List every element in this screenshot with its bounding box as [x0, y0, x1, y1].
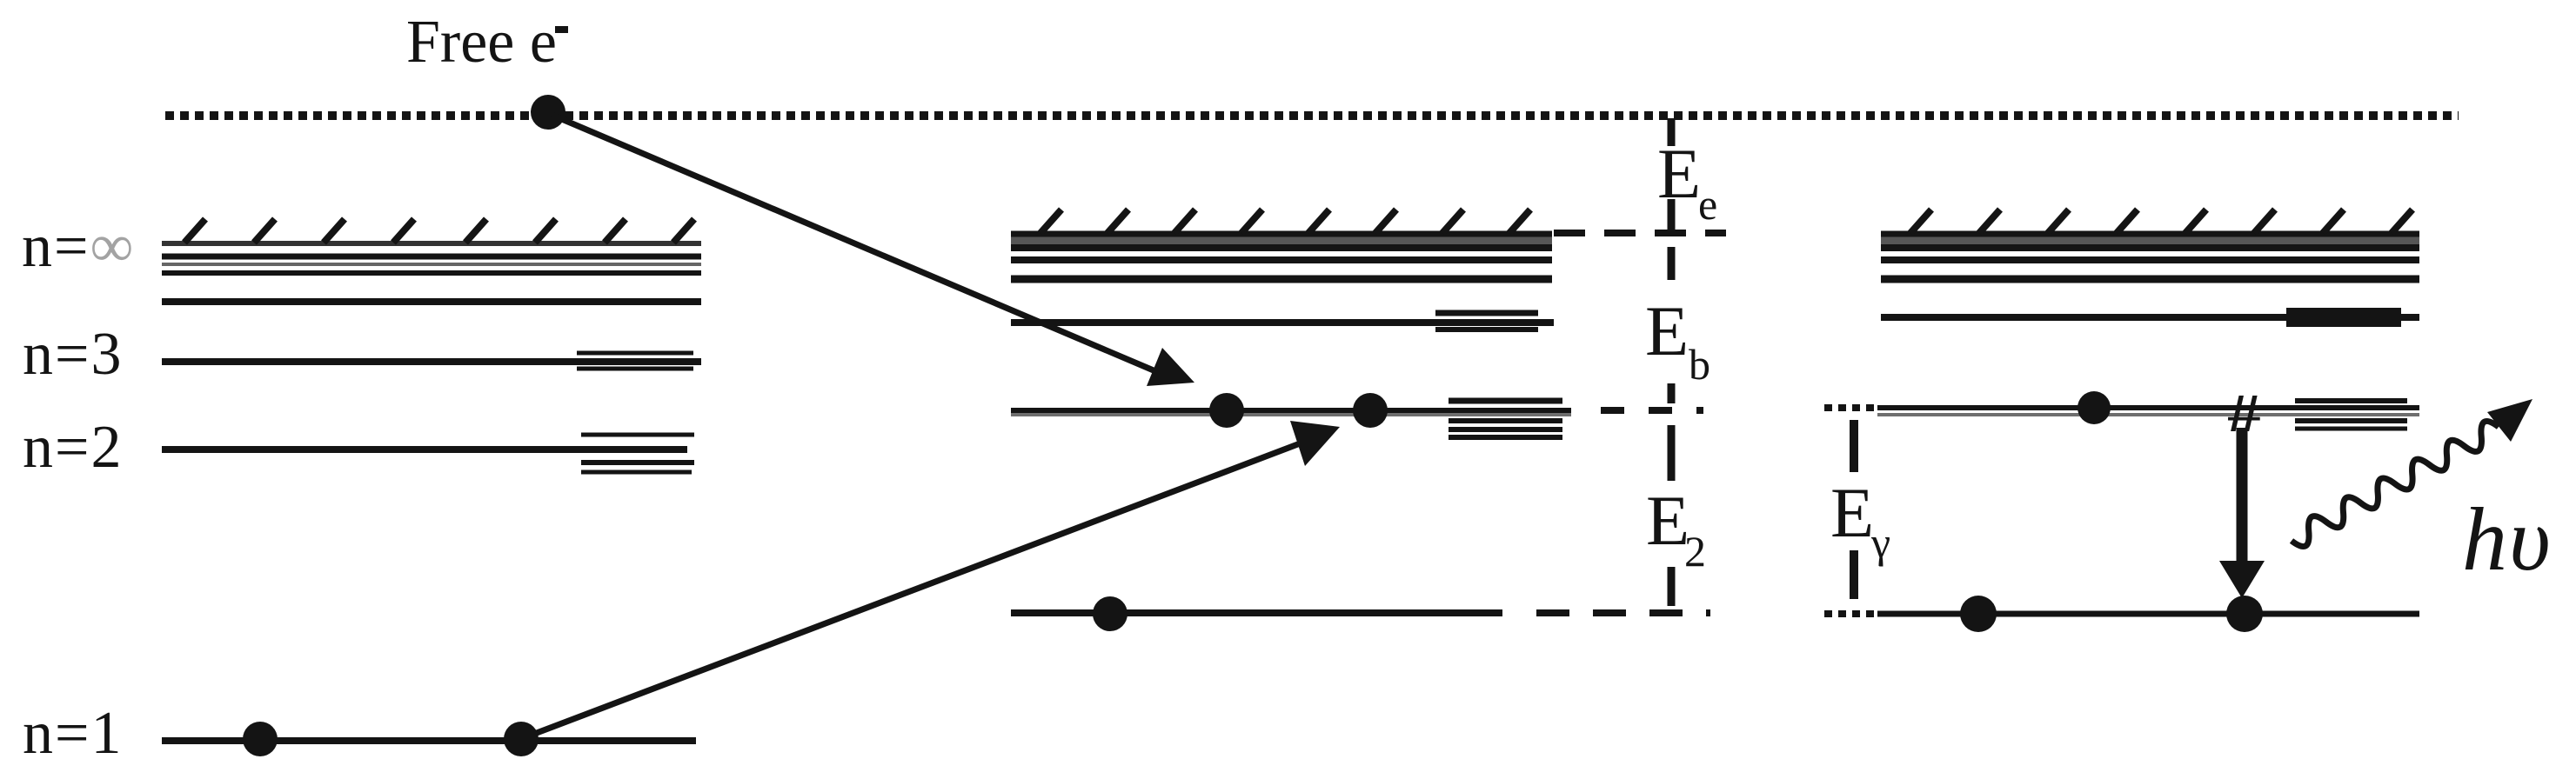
energy scale vertical dashed line segment 1 [1668, 118, 1676, 146]
middle fine structure bar 2 [1449, 418, 1562, 423]
svg-text:e: e [1698, 180, 1717, 229]
middle fine structure bar 4 [1449, 435, 1562, 440]
left Rydberg level line [162, 254, 701, 260]
svg-text:n=2: n=2 [23, 414, 123, 481]
svg-text:hυ: hυ [2462, 489, 2553, 589]
middle ground electron dot [1093, 596, 1127, 631]
middle continuum hatched line [1011, 210, 1552, 234]
E gamma vertical dotted segment upper [1850, 420, 1858, 472]
svg-text:E: E [1645, 291, 1689, 370]
middle ground level line [1011, 609, 1502, 616]
left n=1 level line [162, 737, 696, 744]
left continuum hatched line [162, 219, 701, 243]
radiative decay arrow [2219, 428, 2265, 598]
left n=2 fine structure lower [581, 460, 694, 465]
svg-text:γ: γ [1870, 518, 1890, 567]
free electron dot [531, 95, 565, 130]
left n=2 fine structure lower2 [581, 470, 692, 475]
svg-text:2: 2 [1684, 527, 1706, 576]
middle continuum gray line [1011, 237, 1552, 245]
middle n=3 fine structure lower [1435, 327, 1538, 332]
excitation arrow wire from n=1 to middle level [523, 421, 1340, 738]
middle Rydberg line 2 [1011, 276, 1552, 283]
svg-text:n=1: n=1 [23, 700, 123, 767]
right continuum hatched line [1881, 210, 2419, 234]
right ground electron dot 1 [1960, 596, 1997, 632]
left n=1 electron dot 2 [504, 722, 539, 756]
right ground electron dot 2 [2226, 596, 2263, 632]
capture arrow wire from free electron to middle doubly-excited level [552, 115, 1194, 386]
middle continuum line [1011, 244, 1552, 251]
left n=2 fine structure upper [581, 433, 694, 437]
energy scale vertical dashed line segment 2 [1668, 199, 1676, 233]
middle level electron dot 2 [1353, 393, 1388, 428]
middle level electron dot 1 [1209, 393, 1244, 428]
right excited fine structure lower 2 [2295, 427, 2407, 431]
right excited level left dotted stub [1824, 404, 1876, 411]
left n=4 level line [162, 298, 701, 305]
right continuum gray line [1881, 237, 2419, 245]
free electron continuum dotted line [165, 111, 2459, 120]
svg-text:E: E [1646, 481, 1689, 560]
middle Rydberg line [1011, 256, 1552, 263]
right excited fine structure lower [2295, 418, 2407, 423]
label E_2 [1646, 481, 1706, 576]
right excited electron dot [2078, 391, 2111, 424]
left Rydberg level line [162, 270, 701, 276]
left n=3 level line [162, 358, 701, 365]
right n=3 fine structure thick bar [2286, 308, 2401, 327]
right n=3 line [1881, 314, 2419, 321]
middle doubly-excited level line [1011, 408, 1571, 413]
left n=2 level line [162, 446, 687, 453]
right Rydberg line [1881, 256, 2419, 263]
left n=3 fine structure lower [577, 367, 693, 371]
energy scale: horizontal dashed stub at excited level [1601, 407, 1703, 414]
right excited level line [1877, 405, 2419, 410]
middle fine structure bar 1 [1449, 398, 1562, 404]
energy scale: horizontal dashed stub at ground [1536, 609, 1710, 616]
middle n=3 line [1011, 319, 1554, 326]
label E_e [1657, 134, 1717, 229]
svg-text:n=3: n=3 [23, 321, 123, 388]
right excited level gray shadow [1877, 413, 2419, 416]
right ground level left dotted stub [1824, 610, 1876, 617]
right continuum line [1881, 244, 2419, 251]
left n=1 electron dot [243, 722, 278, 756]
right excited fine structure upper [2295, 398, 2407, 403]
svg-text:E: E [1830, 473, 1874, 552]
energy scale vertical dashed line segment 3b [1668, 425, 1676, 481]
middle doubly-excited gray shadow [1011, 413, 1571, 416]
left Rydberg level line gray [162, 263, 701, 266]
left n=3 fine structure upper [577, 351, 693, 356]
middle n=3 fine structure upper [1435, 310, 1538, 316]
svg-text:E: E [1657, 134, 1701, 213]
energy scale vertical dashed line segment 4 [1668, 567, 1676, 606]
label E_gamma [1830, 473, 1890, 567]
energy scale vertical dashed line segment 2b [1668, 247, 1676, 280]
E gamma vertical dotted segment lower [1850, 550, 1858, 599]
middle fine structure bar 3 [1449, 427, 1562, 432]
svg-text:n=∞: n=∞ [22, 213, 135, 280]
svg-text:Free e: Free e [406, 9, 557, 76]
right Rydberg line 2 [1881, 276, 2419, 283]
energy scale vertical dashed line segment 3 [1668, 383, 1676, 403]
photon wavy arrow [2292, 399, 2533, 547]
label E_b [1645, 291, 1710, 389]
svg-text:b: b [1689, 340, 1710, 389]
label Free e- [406, 9, 568, 76]
energy scale: horizontal dashed stub at continuum [1554, 230, 1726, 236]
right ground level line [1877, 611, 2419, 617]
